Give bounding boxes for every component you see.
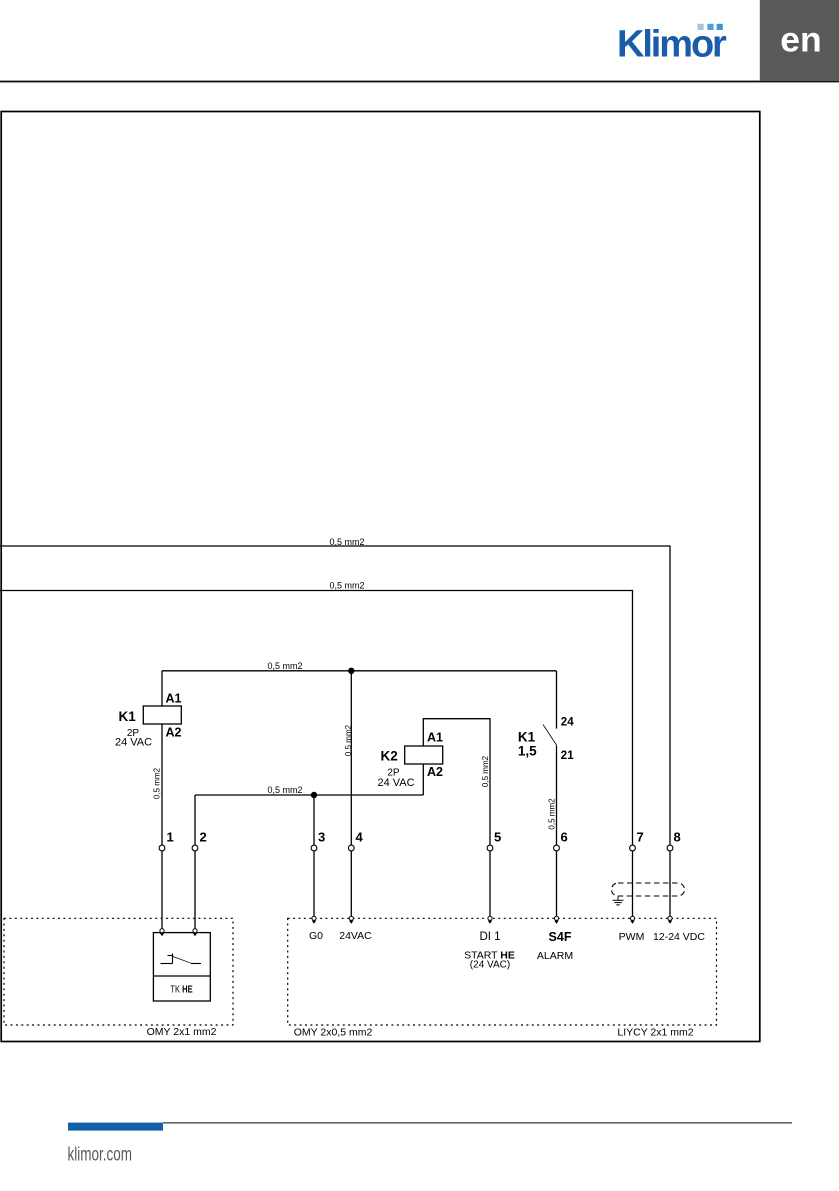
svg-text:klimor.com: klimor.com bbox=[68, 1144, 132, 1165]
svg-text:LIYCY 2x1 mm2: LIYCY 2x1 mm2 bbox=[617, 1027, 693, 1039]
svg-text:0,5 mm2: 0,5 mm2 bbox=[548, 798, 557, 830]
svg-text:24VAC: 24VAC bbox=[339, 930, 372, 942]
svg-text:4: 4 bbox=[356, 830, 364, 845]
svg-text:8: 8 bbox=[674, 830, 681, 845]
svg-text:A1: A1 bbox=[166, 692, 182, 706]
svg-text:K2: K2 bbox=[381, 748, 398, 763]
svg-text:0,5 mm2: 0,5 mm2 bbox=[329, 537, 364, 547]
svg-text:12-24 VDC: 12-24 VDC bbox=[653, 931, 705, 943]
svg-text:0,5 mm2: 0,5 mm2 bbox=[267, 661, 302, 671]
svg-text:24: 24 bbox=[561, 717, 574, 729]
svg-text:21: 21 bbox=[561, 750, 574, 762]
svg-text:K1: K1 bbox=[119, 709, 137, 724]
svg-text:7: 7 bbox=[637, 830, 644, 845]
svg-text:OMY 2x0,5 mm2: OMY 2x0,5 mm2 bbox=[294, 1027, 373, 1039]
svg-text:A1: A1 bbox=[427, 731, 443, 745]
svg-text:A2: A2 bbox=[166, 726, 182, 740]
svg-text:S4F: S4F bbox=[549, 930, 572, 944]
svg-text:5: 5 bbox=[494, 830, 501, 845]
svg-text:G0: G0 bbox=[309, 930, 323, 942]
svg-text:A2: A2 bbox=[427, 765, 443, 779]
svg-text:3: 3 bbox=[318, 830, 325, 845]
svg-text:6: 6 bbox=[561, 830, 568, 845]
svg-text:0,5 mm2: 0,5 mm2 bbox=[153, 767, 162, 799]
svg-text:2: 2 bbox=[200, 830, 207, 845]
svg-text:1: 1 bbox=[167, 830, 174, 845]
svg-text:0,5 mm2: 0,5 mm2 bbox=[344, 724, 353, 756]
svg-text:0,5 mm2: 0,5 mm2 bbox=[329, 581, 364, 591]
svg-text:24 VAC: 24 VAC bbox=[115, 737, 152, 749]
svg-text:(24 VAC): (24 VAC) bbox=[470, 960, 510, 971]
svg-text:K1: K1 bbox=[518, 730, 536, 745]
svg-text:OMY 2x1 mm2: OMY 2x1 mm2 bbox=[147, 1026, 217, 1038]
svg-text:TK HE: TK HE bbox=[170, 983, 192, 994]
svg-text:0,5 mm2: 0,5 mm2 bbox=[481, 755, 490, 787]
svg-text:DI 1: DI 1 bbox=[479, 931, 500, 943]
svg-text:1,5: 1,5 bbox=[518, 743, 537, 758]
svg-text:ALARM: ALARM bbox=[537, 950, 573, 962]
svg-text:0,5 mm2: 0,5 mm2 bbox=[267, 785, 302, 795]
svg-text:PWM: PWM bbox=[619, 931, 645, 943]
svg-text:en: en bbox=[780, 20, 821, 60]
svg-text:24 VAC: 24 VAC bbox=[377, 777, 414, 789]
